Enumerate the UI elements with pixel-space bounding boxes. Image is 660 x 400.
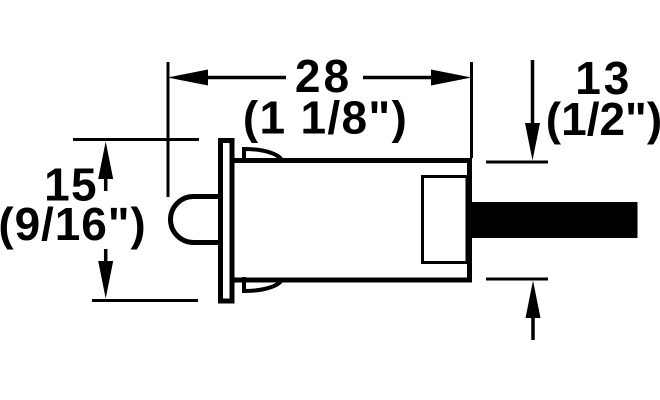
dim 28 right arrowhead [431,70,472,86]
plunger [171,197,224,243]
barb bottom [244,277,282,291]
dim 13 up arrow shaft [531,317,535,340]
dim 28 right arrow shaft [363,76,434,80]
dim 13 up arrowhead [526,281,541,319]
dim 15 up arrow shaft [104,178,108,191]
witness line right of dim 28 [470,62,473,158]
inner rectangle [423,177,468,263]
dim 13 down arrow shaft [531,60,535,125]
witness line left of dim 28 [167,62,170,197]
extension line top of dim 13 [486,161,548,164]
extension line bottom of dim 15 [92,299,198,302]
flange [221,141,233,302]
cable [470,202,638,238]
svg-text:(9/16"): (9/16") [0,198,147,250]
extension line bottom of dim 13 [486,278,548,281]
dim 15 down arrowhead [98,261,113,299]
barb top [244,149,282,163]
dim 28 left arrowhead [168,70,209,86]
svg-text:(1 1/8"): (1 1/8") [243,92,408,144]
dim 13 down arrowhead [525,123,540,161]
dim 28 left arrow shaft [205,76,286,80]
body [232,161,470,281]
dim 15 down arrow shaft [104,249,108,262]
svg-text:(1/2"): (1/2") [546,93,660,145]
dim 15 up arrowhead [98,142,113,180]
extension line top of dim 15 [73,138,199,141]
